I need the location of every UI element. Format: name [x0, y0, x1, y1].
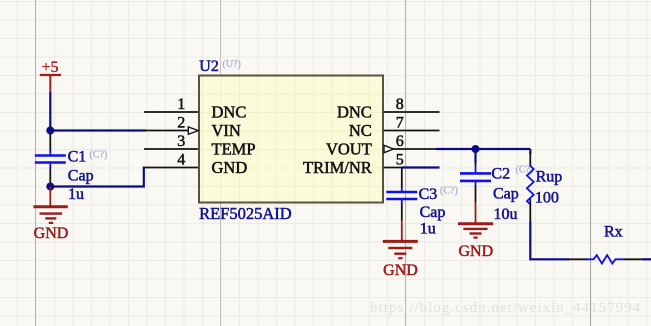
svg-text:5: 5 — [396, 152, 404, 169]
major grid line x=590.5 — [590, 0, 592, 326]
label C2 designator — [491, 165, 533, 183]
svg-text:NC: NC — [349, 121, 372, 140]
svg-text:C2: C2 — [491, 165, 510, 182]
svg-text:100: 100 — [535, 189, 559, 206]
resistor Rup — [527, 152, 534, 222]
capacitor C2 — [460, 161, 491, 203]
wire VOUT net — [436, 148, 530, 150]
svg-text:10u: 10u — [494, 206, 518, 223]
svg-text:GND: GND — [458, 243, 493, 260]
svg-text:DNC: DNC — [337, 102, 372, 121]
pin 4 GND — [144, 152, 247, 177]
svg-text:(U?): (U?) — [223, 59, 241, 70]
junction node VIN — [46, 127, 54, 135]
svg-text:DNC: DNC — [212, 102, 247, 121]
svg-text:TRIM/NR: TRIM/NR — [303, 158, 372, 177]
resistor Rx — [568, 255, 643, 263]
ground GND2 — [458, 203, 493, 261]
svg-text:6: 6 — [396, 133, 404, 150]
wire Rup bottom corner to Rx — [530, 222, 569, 260]
svg-text:7: 7 — [396, 115, 404, 132]
IC U2 REF5025AID body — [199, 76, 383, 203]
svg-text:8: 8 — [396, 96, 404, 113]
wire C1 bottom to pin 4 GND — [50, 167, 144, 187]
pin 1 DNC — [144, 96, 246, 121]
capacitor C1 — [35, 133, 66, 187]
svg-text:2: 2 — [177, 115, 185, 132]
pin 7 NC — [349, 115, 440, 140]
pin 2 VIN with input arrow — [144, 115, 241, 140]
svg-text:C3: C3 — [419, 186, 438, 203]
svg-text:Cap: Cap — [493, 186, 519, 203]
wire VOUT corner down to Rup — [529, 149, 531, 154]
svg-text:4: 4 — [177, 152, 185, 169]
junction node GND C1 — [46, 183, 54, 191]
svg-text:REF5025AID: REF5025AID — [199, 204, 292, 223]
svg-text:Cap: Cap — [68, 168, 94, 185]
pin 3 TEMP — [144, 133, 256, 158]
svg-text:1u: 1u — [68, 186, 84, 203]
svg-text:+5: +5 — [41, 59, 58, 76]
svg-text:https://blog.csdn.net/weixin_4: https://blog.csdn.net/weixin_44157994 — [370, 300, 641, 316]
major grid line x=220.5 — [220, 0, 222, 326]
svg-text:GND: GND — [34, 225, 69, 242]
svg-text:VOUT: VOUT — [326, 139, 372, 158]
wire +5 down to node — [49, 92, 51, 132]
svg-text:TEMP: TEMP — [212, 139, 256, 158]
designator U2 — [199, 58, 241, 75]
svg-text:C1: C1 — [68, 149, 87, 166]
svg-text:VIN: VIN — [212, 121, 241, 140]
major grid line x=35.5 — [35, 0, 37, 326]
power +5 — [40, 59, 61, 93]
svg-text:(C?): (C?) — [440, 186, 458, 197]
junction node VOUT — [472, 145, 480, 153]
capacitor C3 — [386, 168, 417, 222]
svg-text:U2: U2 — [199, 58, 219, 75]
ground GND1 — [33, 187, 68, 243]
svg-text:(C?): (C?) — [90, 150, 108, 161]
svg-text:GND: GND — [212, 158, 248, 177]
ground GND3 — [383, 221, 418, 280]
pin 5 TRIM/NR — [303, 152, 439, 177]
pin 8 DNC — [337, 96, 440, 121]
label C3 designator — [419, 186, 458, 204]
wire node to pin 2 VIN — [50, 129, 146, 131]
svg-text:3: 3 — [177, 133, 185, 150]
svg-text:Rup: Rup — [536, 168, 563, 185]
label C1 designator — [68, 149, 108, 166]
svg-text:Cap: Cap — [420, 204, 446, 221]
svg-text:1u: 1u — [420, 220, 436, 237]
svg-text:1: 1 — [177, 96, 185, 113]
wire junction down to C2 — [474, 149, 476, 163]
pin 6 VOUT with output arrow — [326, 133, 440, 158]
wire TRIM/NR to C3 — [402, 166, 440, 168]
svg-text:Rx: Rx — [604, 224, 623, 241]
svg-text:GND: GND — [383, 262, 418, 279]
major grid line x=405.5 — [405, 0, 407, 326]
wire Rx to right edge — [643, 258, 651, 260]
